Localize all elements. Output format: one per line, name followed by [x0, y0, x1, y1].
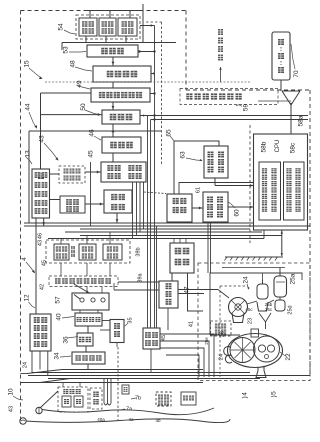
box mixer BB: [143, 328, 160, 349]
wire bus y375: [28, 375, 310, 377]
wire register to N: [50, 199, 61, 201]
box narrow sensor: [110, 320, 124, 343]
link lines: [247, 301, 257, 304]
box detector U: [72, 352, 105, 364]
dashed box readout W: [90, 388, 102, 409]
svg-text:CPU: CPU: [275, 140, 281, 153]
wire dashed inner top: [220, 285, 248, 287]
wire sensor2 bottom: [105, 36, 107, 43]
wire narrow stub: [116, 343, 118, 348]
box amp 1: [54, 244, 69, 260]
box rotor motor: [251, 329, 259, 337]
wire BB down: [150, 349, 152, 373]
box pump T: [77, 333, 93, 346]
box readout V1: [62, 396, 71, 407]
box controller outer: [254, 134, 308, 230]
wire vertical bus x154: [154, 26, 156, 329]
svg-text:34: 34: [54, 352, 61, 360]
wire bus y369: [62, 369, 203, 371]
box modem J: [167, 194, 192, 222]
wire BB right staircase 3: [160, 348, 204, 377]
cup under stirrer: [232, 313, 244, 323]
wire amp2 top: [86, 236, 88, 245]
svg-text:44: 44: [25, 103, 32, 111]
wire J top right to controller: [179, 183, 254, 195]
wire K column 2: [136, 182, 138, 236]
wire bus y223: [24, 222, 254, 224]
svg-text:60: 60: [234, 209, 241, 217]
box amp 2: [79, 244, 96, 260]
wire dashed border top: [21, 10, 187, 12]
wire A right: [138, 51, 155, 53]
wire I down 2: [210, 222, 212, 273]
svg-text:25c: 25c: [265, 307, 273, 312]
wire controller bottom stub: [263, 230, 265, 239]
text heater row: [55, 278, 61, 284]
svg-text:40a: 40a: [97, 417, 105, 422]
wire bus y372: [32, 372, 250, 374]
wire amp bottom x87: [86, 263, 88, 276]
box sensor 1: [79, 18, 97, 36]
wire U down: [87, 364, 89, 370]
wire K column 1: [132, 182, 134, 239]
wavy wire 2: [26, 419, 230, 423]
wire L bottom: [116, 213, 118, 223]
wire V top tick: [62, 383, 64, 388]
wire N to L: [85, 203, 104, 205]
dashed frame around sensor boxes: [76, 15, 140, 39]
box chip control: [93, 66, 151, 82]
wire dashed border step: [186, 89, 310, 91]
box bottom center 1: [156, 392, 171, 406]
svg-text:65: 65: [166, 129, 173, 137]
terminal circle 1: [36, 407, 42, 413]
wire B right: [151, 73, 155, 75]
wire B-C: [112, 82, 114, 88]
wire sensor1 top: [89, 11, 91, 19]
wire tick x114: [113, 283, 115, 290]
svg-text:46: 46: [37, 233, 43, 239]
wire S-T: [87, 326, 89, 333]
wire R bottom tick2: [39, 351, 41, 370]
wire Y top tick x174: [173, 239, 175, 244]
svg-text:4a: 4a: [128, 417, 134, 422]
svg-text:39b: 39b: [135, 247, 141, 256]
svg-text:24: 24: [218, 354, 224, 360]
wire Z down: [167, 308, 169, 330]
wire recorder down: [280, 80, 282, 91]
box controller inner left: [259, 162, 281, 220]
svg-text:70: 70: [293, 70, 300, 78]
wire sensor2 top: [109, 11, 111, 19]
box sub unit: [60, 196, 85, 213]
box processor L: [104, 190, 132, 213]
wire Z to chamber 2: [178, 293, 204, 295]
wavy wire 1: [42, 408, 214, 415]
box display R: [30, 314, 51, 351]
wire H to big box: [215, 185, 254, 187]
wire amp bottom x61: [60, 263, 62, 276]
dashed box tray: [211, 321, 232, 336]
svg-text:63: 63: [180, 151, 187, 159]
svg-text:42: 42: [39, 284, 45, 290]
wire chamber rail: [222, 267, 285, 269]
wire V top tick2: [79, 383, 81, 388]
wire dashed into J: [144, 192, 166, 194]
wire top rail: [86, 10, 143, 12]
wire K column 4: [143, 182, 145, 229]
wire bus y235: [80, 235, 282, 237]
box tiny sensor: [122, 385, 129, 394]
box amp 3: [103, 244, 122, 260]
wire dashed vertical x250: [249, 125, 251, 243]
leader 70: [291, 44, 295, 69]
wire K column 3: [139, 182, 141, 232]
claw left 1: [224, 347, 231, 356]
wire diagonal merge 2: [40, 379, 70, 383]
dashed box readout V: [58, 387, 88, 412]
canister 1: [274, 276, 287, 297]
label programmed-source vertical text: [218, 29, 223, 35]
box thermostat: [87, 45, 138, 57]
funnel to rotor: [259, 313, 271, 322]
wire diagonal merge left: [21, 373, 28, 375]
wire register bottom tick2: [43, 218, 45, 226]
electrode wires with U loops: [103, 379, 105, 404]
svg-text:45: 45: [41, 260, 47, 266]
wire Y top tick x186: [185, 239, 187, 244]
svg-text:58a: 58a: [298, 115, 305, 126]
wire heater to Z: [118, 281, 159, 283]
svg-text:10: 10: [8, 388, 15, 396]
wire sensor3 top: [129, 11, 131, 19]
wire arrow sensor frame to bus: [151, 24, 154, 27]
inner chamber frame: [210, 273, 302, 335]
terminal circle 2: [20, 418, 26, 424]
wire S to narrow: [102, 320, 110, 322]
svg-text:4: 4: [21, 257, 28, 261]
wire Q-S tick1: [97, 310, 99, 313]
svg-text:58b: 58b: [261, 141, 268, 152]
wire vertical right of sensors: [142, 4, 144, 43]
wire amp bottom x110: [109, 263, 111, 276]
hatched support line: [225, 256, 283, 258]
wire Z to stirrer: [178, 289, 218, 291]
wire P to Q 2: [101, 287, 103, 294]
wire dashed border right: [309, 90, 311, 377]
box counter Y: [170, 243, 194, 273]
box readout V2: [74, 396, 83, 407]
wire bus y238: [48, 238, 264, 240]
svg-text:24: 24: [22, 362, 28, 368]
wire dashed inner left: [219, 286, 221, 377]
wire vertical bus x150: [150, 120, 152, 329]
cup funnel under canister2: [257, 302, 268, 311]
svg-text:57: 57: [55, 296, 62, 304]
wire sensor frame right: [140, 25, 155, 27]
claw left 2: [225, 355, 232, 363]
svg-text:46: 46: [89, 129, 96, 137]
wire Q-S tick2: [79, 310, 81, 313]
switch arm diagonal: [74, 295, 80, 300]
wire H down: [214, 178, 216, 186]
box controller inner right: [284, 162, 305, 220]
box switch Q: [72, 293, 109, 310]
svg-text:53: 53: [63, 46, 70, 54]
box valve S: [75, 313, 102, 326]
canister 2: [257, 284, 268, 299]
svg-text:4b: 4b: [155, 418, 161, 423]
svg-text:43: 43: [8, 406, 14, 412]
box driver I: [203, 192, 228, 222]
rotor left wheel: [230, 338, 255, 363]
svg-text:7a: 7a: [126, 406, 133, 412]
wire J to I: [192, 207, 203, 209]
wire to narrow 2: [100, 329, 110, 331]
wire BB right staircase 1: [160, 334, 214, 377]
svg-text:59: 59: [243, 104, 250, 112]
wire C right: [150, 93, 155, 95]
funnel V shape: [282, 90, 300, 92]
wire Y right down: [188, 273, 204, 311]
svg-text:25d: 25d: [287, 305, 293, 314]
box magnetic stirrer: [102, 137, 141, 153]
wire dashed vertical x161: [161, 22, 163, 164]
dashed box line interface: [59, 166, 85, 183]
svg-text:41: 41: [188, 321, 194, 327]
canister 1 lower valve: [275, 300, 285, 311]
rotor right wheel: [254, 336, 280, 362]
wire horizontal y131: [29, 130, 161, 132]
rotor assembly outer: [228, 334, 283, 368]
wire I down 1: [207, 222, 209, 273]
svg-text:15: 15: [24, 60, 31, 68]
box recorder: [272, 32, 290, 80]
wire vertical bus x156: [156, 226, 158, 328]
wire horizontal y82 dashed: [45, 81, 250, 83]
wire staircase 4: [166, 355, 199, 377]
svg-text:24: 24: [243, 276, 250, 284]
wire controller down to bench: [281, 230, 283, 256]
wire bus y226: [24, 225, 310, 227]
svg-text:40: 40: [56, 313, 63, 321]
wire bus y382: [21, 382, 204, 384]
box power supply H: [204, 146, 228, 178]
svg-text:36: 36: [63, 336, 70, 344]
svg-text:23: 23: [247, 318, 253, 324]
flask below rotor: [256, 367, 266, 378]
svg-text:25e: 25e: [204, 337, 209, 345]
wire rail under sensors: [62, 42, 176, 44]
wire stub left: [61, 43, 63, 51]
wire tap to C: [41, 92, 92, 94]
stirrer motor circle: [229, 298, 248, 317]
wire tap to D: [41, 114, 103, 116]
svg-text:50: 50: [80, 103, 87, 111]
svg-text:61: 61: [195, 187, 201, 193]
dashed frame sample chamber: [198, 263, 310, 381]
svg-text:26: 26: [219, 331, 225, 337]
wire P to Q 1: [86, 287, 88, 294]
box data acquisition: [91, 88, 150, 102]
dashed box excitation text: [180, 89, 278, 105]
wire dashed x118: [117, 347, 119, 420]
svg-text:5: 5: [271, 391, 278, 395]
wire Y top tick x180: [179, 239, 181, 244]
wire A-B: [112, 57, 114, 66]
wire I to big box: [228, 206, 254, 208]
wire funnel to controller: [290, 105, 292, 134]
text excitation row: [186, 93, 192, 99]
wire vertical bus x147: [147, 116, 149, 329]
transformer diagonal feed: [74, 284, 90, 294]
switch contacts circles: [80, 298, 84, 302]
wire left tap vertical: [40, 93, 42, 169]
wire excitation to funnel line: [258, 100, 291, 102]
svg-text:35: 35: [127, 317, 133, 323]
box sensor 2: [99, 18, 116, 36]
svg-text:22: 22: [285, 353, 292, 361]
wire C-D: [112, 102, 114, 110]
box register tall: [32, 169, 50, 218]
box driver Z: [159, 281, 178, 308]
wire M to K: [85, 171, 101, 173]
dashed container amplifiers: [46, 240, 130, 263]
wire bus y378: [48, 378, 260, 380]
wire dashed corner top: [146, 21, 162, 23]
wire E-K: [112, 153, 114, 162]
wire dashed border left: [20, 11, 22, 425]
svg-text:43: 43: [37, 240, 43, 246]
wire J up over to H top: [174, 141, 219, 194]
svg-text:45: 45: [88, 150, 95, 158]
wire vertical bus x36: [35, 218, 37, 314]
wire bus y229: [80, 228, 250, 230]
wire horizontal y115: [140, 115, 308, 117]
wire horizontal y290: [114, 289, 159, 291]
svg-text:43: 43: [39, 135, 46, 143]
box preamp: [102, 110, 140, 124]
wire Y-Z: [171, 273, 173, 281]
wire D-E: [112, 124, 114, 137]
box interface K: [101, 162, 146, 182]
wire sensor1 bottom: [85, 36, 87, 43]
wire sensor3 bottom: [125, 36, 127, 43]
svg-text:45: 45: [161, 335, 167, 341]
box sensor 3: [118, 18, 137, 36]
dashed box heater text: [49, 276, 118, 287]
svg-text:48: 48: [70, 60, 77, 68]
wire bus y232: [65, 231, 262, 233]
svg-text:12: 12: [24, 294, 31, 302]
svg-text:58c: 58c: [290, 142, 297, 153]
wire from circle1 up to readout: [41, 391, 59, 408]
wire R bottom tick3: [47, 351, 49, 376]
wire horizontal y119: [151, 119, 309, 121]
wire arrow up to label: [220, 67, 222, 82]
wire register to M: [50, 173, 60, 175]
wire amp1 top: [60, 239, 62, 245]
wire dashed border right upper: [185, 11, 187, 91]
wire T-U: [85, 346, 87, 352]
svg-text:39a: 39a: [137, 272, 143, 282]
wire amp3 top: [109, 232, 111, 244]
box bottom center 2: [181, 392, 196, 405]
svg-text:7b: 7b: [135, 395, 141, 401]
wire BB right staircase 2: [160, 341, 209, 377]
wire R bottom tick1: [31, 351, 33, 373]
svg-text:25a: 25a: [290, 273, 297, 284]
svg-text:13: 13: [25, 150, 32, 158]
wire vertical x90: [90, 162, 92, 226]
wire vertical bus x29: [28, 131, 30, 223]
svg-text:54: 54: [58, 23, 65, 31]
